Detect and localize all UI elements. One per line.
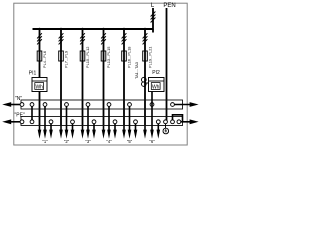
outgoing cables group 3 (81, 106, 96, 144)
outgoing cables group 4 (102, 106, 117, 144)
svg-text:Wh: Wh (152, 84, 160, 90)
slashes group 4 (101, 33, 106, 44)
meter PI2 (149, 78, 165, 92)
group line 6 wire (144, 29, 146, 126)
svg-text:"2": "2" (64, 139, 70, 144)
N terminal strip (21, 100, 183, 109)
PE exit arrow right (181, 119, 199, 124)
breaker slashes on L input (151, 12, 156, 23)
wire meter PI1 output (39, 92, 41, 127)
fuse FU2 (59, 51, 64, 61)
svg-text:"6": "6" (149, 139, 155, 144)
fuse FU5 (122, 51, 127, 61)
svg-text:PL16...PL18: PL16...PL18 (126, 47, 131, 68)
group line 5 wire (123, 29, 125, 126)
svg-text:TA1...TA3: TA1...TA3 (134, 62, 139, 79)
enclosure frame (14, 3, 187, 145)
bus junction dots (38, 28, 146, 30)
fuse FU6 (143, 51, 148, 61)
wire input L drop (152, 8, 154, 30)
PE strip terminal circles (20, 120, 181, 124)
svg-text:PL10...PL12: PL10...PL12 (85, 47, 90, 68)
N exit arrow right (174, 102, 198, 107)
PE terminal strip (21, 117, 183, 126)
current transformer TA1...TA3 (142, 77, 147, 82)
svg-text:"PE": "PE" (15, 113, 25, 119)
svg-text:PEN: PEN (163, 3, 175, 9)
svg-text:Wh: Wh (35, 84, 43, 90)
slashes group 2 (59, 33, 64, 44)
N strip terminal circles (20, 103, 174, 107)
fuse FU1 (37, 51, 42, 61)
wire CT to meter PI2 (145, 82, 149, 84)
svg-text:PL19...PL21: PL19...PL21 (147, 47, 152, 68)
slashes group 5 (122, 33, 127, 44)
svg-text:"3": "3" (85, 139, 91, 144)
svg-text:PL13...PL15: PL13...PL15 (106, 47, 111, 68)
outgoing cables group 5 (122, 106, 137, 144)
svg-text:"N": "N" (15, 96, 22, 102)
group line 2 wire (60, 29, 62, 126)
PE exit arrow left (2, 119, 22, 124)
wire N-PE bridge left (31, 106, 33, 120)
phase bus (33, 28, 154, 30)
svg-text:"1": "1" (42, 139, 48, 144)
svg-text:PI1: PI1 (29, 70, 37, 76)
outgoing cables group 1 (38, 106, 53, 144)
group line 3 wire (82, 29, 84, 126)
outgoing cables group 2 (59, 106, 74, 144)
wire PE jumper to exit (173, 115, 183, 122)
meter PI1 (32, 78, 47, 92)
slashes group 6 (143, 33, 148, 44)
earth symbol (163, 124, 169, 134)
fuse FU4 (101, 51, 106, 61)
svg-text:"5": "5" (127, 139, 133, 144)
fuse FU3 (80, 51, 85, 61)
wire PEN conductor drop (166, 8, 168, 121)
svg-text:"4": "4" (106, 139, 112, 144)
group line 1 wire (39, 29, 41, 78)
wire bus stub at L junction (152, 29, 154, 33)
N exit arrow left (2, 102, 22, 107)
outgoing cables group 6 (143, 92, 160, 145)
svg-text:PL7...PL9: PL7...PL9 (63, 51, 68, 68)
slashes group 1 (37, 33, 42, 44)
slashes group 3 (80, 33, 85, 44)
group line 4 wire (103, 29, 105, 126)
svg-text:PL4...PL6: PL4...PL6 (42, 51, 47, 68)
svg-text:PI2: PI2 (152, 70, 160, 76)
